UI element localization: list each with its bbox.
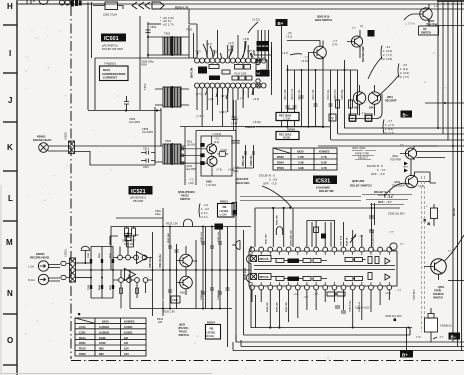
svg-text:R560: R560 [277,155,284,159]
junction dots feed [272,207,372,209]
dot above table [78,313,80,315]
svg-text:ERASE HEAD: ERASE HEAD [33,138,51,142]
enclosure y335 [244,328,411,335]
transformer T502 [155,86,189,108]
svg-text:(-4.7): (-4.7) [282,51,288,55]
connector CN581 [69,141,75,154]
ladder column 2 [101,247,103,299]
svg-text:2: 4.4: 2: 4.4 [201,211,208,215]
right bus vertical 5 [457,0,459,347]
svg-text:B+: B+ [278,21,284,26]
black junction square [394,319,397,322]
svg-text:CN521: CN521 [65,249,68,257]
svg-text:220: 220 [158,321,163,324]
svg-text:1.7: 1.7 [434,4,438,8]
right bus vertical 3 [447,0,449,140]
svg-text:B−: B− [451,334,457,339]
svg-text:Q503 (0.5): Q503 (0.5) [317,15,330,19]
svg-text:1: (-6.6): 1: (-6.6) [383,49,392,53]
svg-text:100K: 100K [99,336,106,340]
svg-text:PLAY LINE: PLAY LINE [235,73,247,76]
curved pointer arrows top [197,41,253,57]
wires below IC501 bottom pins [197,88,253,127]
svg-text:L: L [8,194,13,203]
svg-text:C101: C101 [79,325,86,329]
svg-text:160: 160 [124,352,129,356]
wire T501 top lead [148,23,161,25]
svg-text:C531: C531 [88,284,90,290]
wire vertical x140 [139,16,141,110]
svg-text:6.2K: 6.2K [321,161,327,165]
svg-text:DOLBY NR: DOLBY NR [319,189,334,193]
svg-text:PB DC: PB DC [181,194,189,198]
svg-text:J: J [8,96,12,105]
IC531 outline [249,251,397,286]
svg-text:4.3K: 4.3K [298,161,304,165]
svg-text:1M: 1M [124,341,129,345]
svg-text:(-4.4): (-4.4) [385,292,391,295]
wire long y226.5 [111,226,251,228]
svg-text:I: I [352,116,353,121]
svg-text:3: (-7.7): 3: (-7.7) [400,75,409,79]
cap marks bottom [335,306,346,313]
IC501 internal black block AMP/FILTER [256,70,270,77]
svg-text:R521: R521 [99,252,101,258]
connector bump on y226 wire [184,219,193,227]
svg-text:0.00022: 0.00022 [99,330,110,334]
wire main y270 [76,269,252,271]
svg-text:EQ AMP: EQ AMP [187,168,197,171]
transistor Q581 [353,92,365,104]
svg-text:1: −0.2: 1: −0.2 [201,207,210,211]
svg-text:C : 3.8: C : 3.8 [384,195,393,199]
ruler tick 2 [3,72,17,74]
svg-text:R302: R302 [79,352,86,356]
bus turn wire y146 [318,145,464,147]
svg-text:R542 10K: R542 10K [276,215,279,225]
bottom bus wire y350 [233,350,464,352]
wire from connector y146 [75,108,162,146]
EQ feedback resistors [217,152,228,157]
IC501 label box [101,34,126,42]
wire y218 [116,217,163,219]
svg-text:R551: R551 [110,284,112,290]
svg-text:R101: R101 [79,336,86,340]
capacitor block C513 [257,47,270,52]
resistor C527 [132,228,136,236]
svg-text:R5 47K: R5 47K [453,208,456,216]
svg-text:C544 1.0u: C544 1.0u [217,289,220,300]
svg-text:10u 450V: 10u 450V [129,120,140,124]
EQ amp inner box [201,136,232,176]
svg-text:TAPE TYPE: TAPE TYPE [355,152,369,156]
pointer arcs [368,57,399,97]
wire y308.5 [130,308,232,310]
svg-text:C521 (0)-10u: C521 (0)-10u [160,254,162,268]
svg-text:R548 1K: R548 1K [346,237,349,246]
wire bottom of grid y127 [256,126,330,128]
wires Q581 pair leads [360,85,375,116]
svg-text:C534 1.0u: C534 1.0u [217,231,220,242]
svg-text:(-10): (-10) [208,97,214,101]
transistor QA [180,254,193,267]
RV524 PB LEVEL box [206,325,221,340]
EQ caps right [231,141,240,143]
small resistors right bottom [327,292,345,296]
svg-text:7.7: 7.7 [352,26,356,30]
svg-text:0.0001: 0.0001 [124,325,133,329]
svg-text:(-6.62): (-6.62) [253,120,261,124]
IC531 pin stubs top [252,252,389,285]
svg-text:MPX FIL: MPX FIL [260,276,270,279]
capacitor block C512 [257,41,270,46]
B+ label box [276,19,288,26]
svg-text:BEAD L7B: BEAD L7B [175,6,188,10]
ladder component marks [90,259,114,289]
internal black block 1 [288,259,300,264]
ladder top wire [91,246,113,248]
svg-text:+R(10): +R(10) [220,150,227,152]
svg-text:C520 33p: C520 33p [341,89,344,100]
pin box V [329,114,336,121]
page left scan edge [0,185,2,375]
svg-text:T502: T502 [143,83,147,90]
left edge connector arch [232,241,240,250]
erase head symbol [39,143,49,153]
svg-text:2: (-7.7): 2: (-7.7) [383,53,392,57]
filter columns [170,227,228,348]
svg-text:TAPE: TAPE [403,166,409,169]
svg-text:160: 160 [124,347,129,351]
svg-text:L(5R1+R4) 1CH: L(5R1+R4) 1CH [290,230,293,246]
pin box 1 [350,116,356,122]
bus turn wire y134 [338,133,464,135]
svg-text:TH(B)501: TH(B)501 [104,62,117,66]
top right wire y25 [437,25,464,27]
svg-text:REC/REP: REC/REP [385,99,397,103]
transistor Q502 [351,36,362,47]
transformer T503 [155,143,185,165]
enclosure corner A [184,127,186,186]
svg-text:TEA/TRM: TEA/TRM [390,159,401,162]
internal block MPX 2 [259,274,272,280]
svg-text:LED: LED [173,298,178,302]
svg-text:O: O [7,336,13,345]
svg-text:0.00022: 0.00022 [99,325,110,329]
enclosure outer left x236 [235,100,237,342]
drops below IC521 row2 [121,283,146,309]
junction y110 a [125,109,127,111]
svg-text:(-3.2): (-3.2) [286,35,292,39]
relay box D551 [425,308,438,342]
svg-text:−1.2: −1.2 [293,293,299,296]
svg-text:R539 10K: R539 10K [277,302,279,312]
svg-text:C533 1.0u: C533 1.0u [201,231,203,242]
RV502 REC BIAS R-CH box [276,132,299,140]
transistor Q503 leads [308,41,323,129]
wire IC501 box top edge [95,57,197,59]
junction right mid [444,102,446,104]
wire stub R527 [127,227,134,248]
svg-text:R517 10K: R517 10K [284,89,287,100]
wire top feed [20,3,105,5]
svg-text:470p 10K: 470p 10K [124,244,134,246]
right bus vertical 6 [461,0,463,351]
Q502 leads [347,30,360,58]
wires above IC501 top pins [189,9,248,58]
svg-text:R519 100: R519 100 [312,89,315,100]
svg-text:SELECT: SELECT [358,156,369,160]
svg-text:C535 10u 50V: C535 10u 50V [388,212,405,216]
svg-text:450V: 450V [141,63,147,67]
IC521 wiring [113,232,153,280]
cap mark x371 [369,216,374,232]
svg-text:R541 10K: R541 10K [265,234,268,244]
B+ label box bottom [400,350,413,358]
head symbol (cut at top edge) [39,0,48,5]
svg-text:GND506: GND506 [245,125,256,129]
svg-text:R541: R541 [98,284,101,290]
svg-text:100K: 100K [99,341,106,345]
ruler tick 4 [3,170,17,172]
bead L [61,261,66,265]
Q551 arc lead [445,235,464,261]
capacitor C582 [65,0,70,5]
internal block MPX 1 [259,256,272,262]
internal X box 1 [251,256,257,262]
wire B+ down [281,26,283,127]
Q551 leads [424,267,439,281]
variable resistor arrow [350,234,356,243]
cap marks on columns [168,242,230,294]
svg-text:BIAS SWITCH: BIAS SWITCH [315,18,332,22]
svg-text:(-6.5): (-6.5) [243,37,249,41]
ladder column 3 [112,247,114,299]
transistor Q503 [314,46,327,59]
brace 1 [381,46,382,60]
PCB boundary dash-dot vertical [70,6,72,359]
IC531 top pins [250,247,392,252]
connector CN521 [70,258,76,282]
svg-text:(-4.7): (-4.7) [228,41,234,45]
svg-text:+: + [426,204,428,208]
bias osc components left [236,130,255,172]
tape b+ arrows [404,162,408,173]
decoder leads right [415,172,437,183]
play head L [38,261,48,271]
svg-text:OFF : −7.7: OFF : −7.7 [378,200,392,204]
wire right low y280 [448,280,464,282]
small component marks on grid [286,96,353,108]
transformer T501 [148,36,189,56]
svg-text:100p: 100p [155,213,161,216]
bus turn wire y128 [344,127,464,129]
internal resistor pairs row1 [276,257,390,281]
resistor R527 [125,228,129,236]
svg-text:R516 4.7K: R516 4.7K [291,88,294,100]
svg-text:4.7K: 4.7K [321,166,327,170]
ruler tick 5 [3,220,17,222]
svg-text:(-7.47): (-7.47) [196,114,204,118]
svg-text:2: (4.4): 2: (4.4) [385,127,393,131]
IC501 internal white block RCA [209,65,219,69]
wire x130 down [129,270,131,309]
svg-text:(-0.47): (-0.47) [219,110,227,114]
svg-text:IC521: IC521 [131,189,146,195]
svg-text:CN581: CN581 [65,132,68,140]
wire double vertical left of L501 [88,2,92,110]
svg-text:R-CH: R-CH [284,136,291,140]
IC501 bottom pin row [195,83,267,88]
wire y263 from connector [76,262,92,264]
svg-text:3: (-6.8): 3: (-6.8) [383,57,392,61]
bottom bus left corner 1 [235,335,237,342]
junction dots IC521 area [152,226,229,310]
capacitor C515 [141,159,155,163]
svg-text:L-CH: L-CH [28,265,34,269]
svg-text:T503: T503 [165,139,171,143]
dashed stock lines [422,176,425,332]
transistor Q561 [405,148,416,159]
IC501 right edge block [256,60,267,83]
svg-text:C504: C504 [150,25,157,29]
svg-text:IC531: IC531 [316,179,331,185]
svg-text:PB AMP: PB AMP [133,199,144,203]
svg-text:3: 4.4: 3: 4.4 [201,215,208,219]
svg-text:2: (-5.3): 2: (-5.3) [400,71,409,75]
svg-text:R564: R564 [277,161,284,165]
EQ input black blocks [200,143,204,147]
IC531 internal mid rails [254,266,395,270]
QA QB leads [177,246,187,295]
svg-text:(4.4): (4.4) [214,141,219,144]
bottom collector wire [251,327,412,329]
internal wires [271,259,366,279]
ruler tick 6 [3,267,17,269]
pin box 3 [366,116,372,122]
svg-text:→ −7.7: → −7.7 [357,112,366,116]
play head R [38,274,48,284]
svg-text:Q521: Q521 [179,323,186,327]
svg-text:−7.7: −7.7 [387,119,393,123]
resistor above opamp [125,237,131,241]
svg-text:* : AC 1.7V: * : AC 1.7V [160,22,174,26]
small transistor at pin16 [390,243,397,250]
page bottom faint edge [0,373,212,375]
svg-text:CURRENT: CURRENT [103,76,117,80]
svg-text:680: 680 [99,347,104,351]
svg-text:(PS-521): (PS-521) [178,326,189,330]
svg-text:DOLBY B : 0: DOLBY B : 0 [374,190,391,194]
svg-text:DOLBY SWITCH: DOLBY SWITCH [350,184,372,188]
enclosure bump L1 [247,255,252,264]
svg-text:H: H [7,2,13,11]
wires right of IC501 going down [258,30,272,80]
RV521 PB LEVEL box [218,204,235,218]
svg-text:C514: C514 [143,148,149,151]
svg-text:BIAS OSC: BIAS OSC [236,181,250,185]
svg-text:−0.2: −0.2 [203,203,209,207]
long vertical x163 [162,208,164,316]
svg-text:C521: C521 [88,252,90,258]
svg-text:R-CH: R-CH [28,278,35,282]
svg-text:C550 (4.7): C550 (4.7) [413,289,416,300]
transistor EQ2 [207,156,217,166]
svg-text:−3.5: −3.5 [402,63,408,67]
svg-text:K: K [7,143,13,152]
svg-text:−7.7: −7.7 [396,290,402,293]
transistor Q551 [431,259,447,275]
top rule line 1 [17,3,464,5]
wire vertical x148 [147,22,149,58]
pointer line [290,54,302,55]
svg-text:R531: R531 [110,252,112,258]
wire IC501 box left edge [94,58,96,110]
transistor QB [180,276,193,289]
svg-text:T501: T501 [164,32,171,36]
svg-text:−7.7: −7.7 [332,39,338,43]
bottom bus left corner 2 [240,340,242,347]
svg-text:DOLBY NR PRO: DOLBY NR PRO [102,47,124,51]
svg-text:R535 1.5K: R535 1.5K [166,223,178,226]
rotated resistor labels [284,88,344,100]
svg-text:−7.7: −7.7 [303,56,309,60]
hop arch symbol [276,227,282,235]
svg-text:(-0.7): (-0.7) [221,94,227,98]
capacitor C514 [141,151,155,155]
brace pb [199,204,200,218]
junction y110 b [156,109,158,111]
EQ transistor verticals [211,136,213,176]
svg-text:1: (4.4): 1: (4.4) [400,67,408,71]
wire right mid y103 [425,102,464,104]
junction dots grid [287,69,346,128]
svg-text:RV521: RV521 [220,200,228,204]
pin box I2 [365,114,372,121]
svg-text:OFF : −3.9: OFF : −3.9 [371,172,385,176]
svg-text:PB DC: PB DC [179,330,187,334]
box around 2841 pair [348,94,382,119]
bus turn wire y140 [331,139,464,141]
svg-text:KX80E3: KX80E3 [319,150,330,154]
svg-text:SWITCH: SWITCH [421,32,431,35]
TH501 bias compensation box [100,66,129,81]
IC521 pins row1 [118,255,147,260]
IC521 enclosure corner [110,236,118,245]
op-amp A [137,252,148,264]
brace 3 [383,120,384,134]
junction dots ladder [84,262,114,279]
svg-text:L-CH: L-CH [284,117,290,121]
resistor value table R560 [273,148,337,170]
svg-text:RV524: RV524 [207,321,215,325]
svg-text:6X30: 6X30 [102,320,109,324]
svg-text:7.3+5.6): 7.3+5.6) [212,133,221,136]
svg-text:B+: B+ [402,352,408,357]
arc to decoder [384,183,408,196]
row ruler line [16,0,18,375]
svg-text:7.7: 7.7 [400,242,404,246]
bottom bus left corner 3 [232,342,234,351]
head leads L [49,264,70,268]
svg-text:1: (-7.7): 1: (-7.7) [385,123,394,127]
svg-text:R566: R566 [277,166,284,170]
junction dot T501 lead [147,36,149,38]
x marks near cap [424,219,430,225]
ladder bottom wire [91,297,113,299]
capacitor C504 [146,30,151,33]
transistor Q5 top right corner [420,8,432,20]
